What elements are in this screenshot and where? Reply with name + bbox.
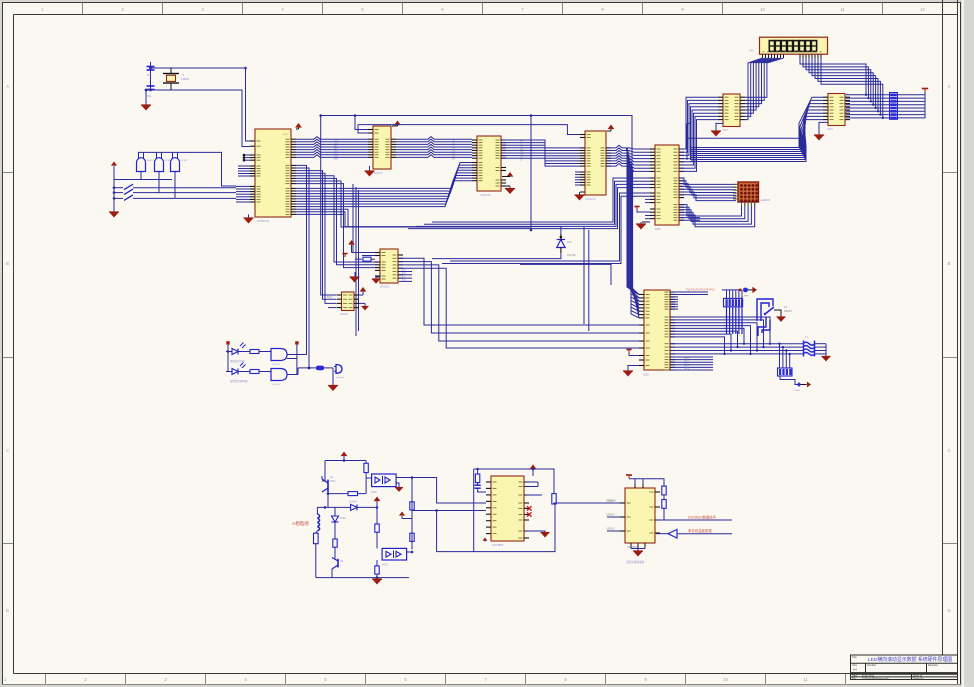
svg-text:Title: Title [852,655,857,659]
and gate 1 [137,158,146,172]
svg-text:P6KE: P6KE [340,518,346,520]
vertical x530 to U3 and triangle wire [530,116,532,231]
7-segment display DS1 [760,37,828,54]
scrollbar gutters [961,0,974,687]
vcc U1 [295,123,302,128]
hook wires lower staples [758,317,766,336]
wire RP3 bottom [780,376,797,385]
bus B3 U3->U4 [502,140,580,148]
opto1 out wire [396,478,486,504]
ground U2 [369,166,371,171]
svg-text:12: 12 [920,7,925,12]
gate output wires [140,172,142,180]
bus B4 U4->U5 [607,145,650,149]
wire gate top rail [138,152,236,186]
svg-text:8155: 8155 [643,373,649,377]
svg-text:P07: P07 [334,158,339,161]
svg-text:Y1: Y1 [181,73,185,77]
IC U12 [625,488,655,543]
svg-text:A相电感: A相电感 [292,520,309,527]
long vertical x341 to U9 [341,182,530,227]
center vertical [376,507,378,524]
resistor below coil [314,533,319,544]
bus B5a U5->U6 [680,97,718,149]
bus B6 U6->7seg [745,58,763,120]
vertical x320 to U10 [321,116,336,296]
ground switches [109,212,119,218]
U12 left stubs [607,502,620,504]
svg-text:ADC0809: ADC0809 [492,543,504,547]
IC U2 74LS373 [373,126,391,169]
bus to transformer right side [815,343,826,345]
svg-text:温度传感器电路: 温度传感器电路 [626,560,645,564]
switch K3 [114,197,123,199]
switch K2 [114,192,123,194]
bus B5b U5->dotmatrix [680,178,736,184]
svg-text:Size: Size [852,663,858,667]
svg-text:10: 10 [760,7,765,12]
svg-text:L-MHF: L-MHF [742,296,749,298]
ground analog [376,578,378,579]
ground U8 [628,366,639,372]
IC U5 8255 [655,145,679,225]
vcc U8 left [626,349,631,351]
optocoupler U13 [372,474,397,487]
U9 pin2 stub [362,255,375,257]
svg-text:C: C [6,448,9,453]
resistor R21 [250,370,259,374]
left vertical analog [324,461,326,482]
svg-text:7407: 7407 [722,128,728,132]
gate G5 [271,369,287,381]
bus B1 [296,137,368,140]
svg-text:DIG4: DIG4 [684,369,690,371]
cluster junctions [227,350,230,353]
coil top wire [317,507,325,512]
svg-text:4N25: 4N25 [382,564,388,567]
extra bottom wires [296,209,348,227]
svg-text:74LS245: 74LS245 [480,193,491,197]
ADC bottom left vcc [483,538,488,541]
svg-text:B: B [948,261,951,266]
transistor Q1 [327,480,329,492]
ADC gnd [525,531,545,533]
svg-text:D10: D10 [567,241,572,244]
and gate 2 [155,158,164,172]
ground U3 [509,186,511,188]
svg-text:Drawn By:: Drawn By: [913,677,924,680]
svg-text:9013: 9013 [330,480,336,483]
svg-text:File:: File: [852,677,857,680]
U2 top-left wires [355,116,368,130]
wire down to bottom rail [437,511,474,552]
wire ADC to U12 [554,502,620,504]
wire crystal bottom [151,90,251,147]
junctions misc [244,67,247,70]
ground U7 [819,122,828,135]
IC U1 AT89C51 [255,129,291,217]
ground U9 right [376,277,380,279]
ground U4 [579,192,581,195]
switch K4 gnd lead [774,310,781,317]
IC U4 74LS373 [585,131,606,195]
bus taps B4 to U8 AD bus [627,149,639,295]
U5 left lower control wires [432,178,650,222]
wire pair mid [520,264,611,285]
resistor R14 [375,524,379,532]
IC U10 24C02 [342,292,355,311]
U1 left stubs [238,165,250,167]
hook wires upper staples [757,299,773,321]
U12 top wires [634,484,636,489]
resistor on right rail [552,494,556,504]
svg-text:DS18B20数据信号: DS18B20数据信号 [688,515,717,520]
ground opto1 [396,483,399,488]
svg-text:A: A [948,84,951,89]
analog outputs to ADC [412,510,486,512]
ground U1 [248,214,250,218]
ground transformer right [825,344,827,357]
vcc SIP rail [722,289,742,291]
optocoupler U14 [382,548,407,560]
vcc mid [374,497,381,502]
svg-text:30p: 30p [147,73,152,77]
U10 pin4 stub [328,307,336,309]
svg-text:US(D)V: US(D)V [606,514,615,517]
svg-text:DS1302: DS1302 [380,285,390,289]
vcc right rail [924,91,926,118]
U1 group2 wires [296,165,307,171]
bus B8 U7->network [846,94,925,96]
ground switch K4 [777,317,786,322]
rail PSEN [358,125,580,135]
svg-text:A: A [6,84,9,89]
capacitor C1 [147,66,155,68]
svg-text:LED横向滚动显示数据 系统硬件原理图: LED横向滚动显示数据 系统硬件原理图 [868,656,952,663]
svg-text:12MHz: 12MHz [181,77,190,81]
svg-text:30p: 30p [147,94,152,98]
resistor network RP1 [890,93,898,120]
bus B9 U7 left feed [690,97,823,147]
speaker gnd wire [332,368,334,386]
svg-text:74LS373: 74LS373 [585,197,596,201]
ground U10 [362,307,369,311]
power port left [111,162,117,166]
svg-text:B: B [6,261,9,266]
crystal Y1 [163,73,179,75]
vcc small right [399,512,405,516]
vcc U10 [360,287,367,292]
long vertical x353 to U9 pin1 [353,184,375,253]
svg-text:74LS21: 74LS21 [146,160,154,162]
ground stem crystal [145,90,147,105]
bottom rail analog [316,577,409,579]
svg-text:US(D)V: US(D)V [606,528,615,531]
svg-text:D: D [947,608,950,613]
svg-text:US(D)V: US(D)V [606,500,615,503]
svg-text:7407: 7407 [827,127,833,131]
svg-text:D:\Design\MyDesign.ddb: D:\Design\MyDesign.ddb [862,677,889,680]
svg-text:Number: Number [867,663,876,667]
LED D4 [232,369,238,375]
vcc U2 [394,121,401,126]
svg-text:报警指示蜂鸣器: 报警指示蜂鸣器 [230,379,248,383]
IC U3 74LS245 [477,136,501,191]
resistor R near U9 [363,257,371,261]
transistor Q2 [337,559,339,568]
gate G4 [271,349,287,361]
svg-text:C-MHF: C-MHF [793,390,801,392]
svg-text:LED8x8: LED8x8 [761,198,771,202]
svg-text:AT89C51: AT89C51 [257,219,270,223]
resistor R11 horizontal [348,492,358,496]
svg-text:A4: A4 [853,668,857,672]
U12 right resistors [662,486,666,495]
vcc U5 bottom-left [634,206,639,208]
ground U9 left [350,277,360,283]
U8 left fan [631,287,639,295]
right resistors [410,502,414,510]
and gate 3 [171,158,180,172]
svg-text:74LS04: 74LS04 [272,384,280,386]
ground U5 [640,222,642,224]
bus B2 [396,137,472,140]
ADC right stubs [525,481,538,483]
dot matrix LED1 [738,182,759,202]
IC U8 8155 [644,290,670,370]
U9 right wires to U8 left lower pins [399,258,639,325]
wire crystal left vertical [150,62,152,90]
U8 right bottom stubs [671,356,713,358]
switch K4 [765,307,774,314]
svg-text:74LS21: 74LS21 [180,160,188,162]
long vertical x322 to U10 [323,172,337,299]
speaker LS1 [336,365,342,374]
ground crystal [141,105,151,111]
svg-text:4N25: 4N25 [371,491,377,494]
wire under gates [114,179,172,181]
vcc right arrow lower [801,384,807,386]
vcc analog top [341,452,348,457]
vertical drops to SIP2 [779,344,781,368]
vcc U9 [348,240,355,245]
vcc U4 [608,125,615,130]
resistor R10 [364,463,368,472]
U8 right bottom bus lines [671,343,803,345]
vcc U3 right [507,172,514,177]
IC U9 [380,249,398,283]
bus B5c U5 bottom to matrix bottom pins [680,203,742,217]
ADC right X marks [527,506,532,510]
bus B7 7seg->right bus [800,58,866,95]
vcc cluster power squares [295,341,298,344]
svg-text:11: 11 [840,7,845,12]
opto2 out [407,551,412,553]
svg-text:DS1: DS1 [749,50,754,53]
svg-text:SDA: SDA [327,296,332,299]
svg-text:74LS04: 74LS04 [272,364,280,366]
U12 right wire 1 [656,519,732,521]
svg-text:24C02: 24C02 [340,312,348,316]
svg-text:通电指示LED: 通电指示LED [230,359,245,363]
U9 right stubs [399,271,412,273]
speaker line [298,367,316,369]
ground U6 [716,123,723,131]
ground cluster [328,386,338,392]
analog top rail [325,460,365,462]
title block [851,655,958,680]
buffer triangle [668,530,677,539]
svg-text:单总线温度数据: 单总线温度数据 [688,528,712,533]
resistor bottom [375,566,379,574]
long vertical x306 to LED cluster [287,167,307,355]
dot matrix bottom pins [741,202,743,207]
U8 right stubs top [671,291,708,293]
svg-text:11: 11 [803,677,808,682]
rail ALE [321,116,639,295]
inductor coil [316,512,318,514]
diode D1 vertical [557,240,565,248]
Q1 emitter wire [327,492,329,507]
wire crystal top [151,68,251,141]
resistor R22 [316,366,324,371]
junction crystal [149,67,152,70]
dual diode [334,507,336,516]
resistor R20 [250,350,259,354]
U12 bottom [630,543,632,549]
capacitor C2 [147,85,155,87]
U1 bottom bus to U3 lower pins [296,163,472,189]
IC U11 ADC0809 [491,476,524,541]
transformer L1 [803,342,815,345]
dot matrix left pins [733,183,738,185]
resistor R13 [333,539,337,547]
ADC top rail [478,469,533,476]
svg-text:8255: 8255 [655,227,661,231]
blue bead [743,288,748,293]
svg-text:C: C [947,448,950,453]
IC U6 7407 [723,94,740,127]
LED D3 [232,349,238,355]
7seg pins [762,55,764,59]
svg-text:RESET: RESET [784,310,793,313]
diode D2 [325,506,350,508]
vcc stub left [342,253,347,255]
switch K1 [114,187,123,189]
svg-text:10: 10 [723,677,728,682]
U4 left lower stubs [575,171,580,173]
plus junction [797,384,801,386]
ADC left top components [477,469,479,474]
resistor network RP2 [724,298,743,306]
ADC loop wires [474,468,478,470]
long vertical x334 to U9 left pins [334,177,375,262]
svg-text:VCC: VCC [283,134,288,136]
long vertical x309 to speaker line [308,169,310,368]
svg-text:1N4148: 1N4148 [567,254,576,257]
svg-text:P10 P11 P12 P13 P14 P15: P10 P11 P12 P13 P14 P15 [686,289,715,292]
svg-text:D: D [6,608,9,613]
svg-text:Revision: Revision [928,663,939,667]
resistor network RP3 [778,368,793,376]
IC U7 7407 [828,94,845,126]
svg-text:Speaker: Speaker [336,376,344,379]
U8 right group2 staircase [671,317,770,344]
svg-text:1N4007: 1N4007 [349,502,358,504]
U6 lower wires [687,122,690,124]
